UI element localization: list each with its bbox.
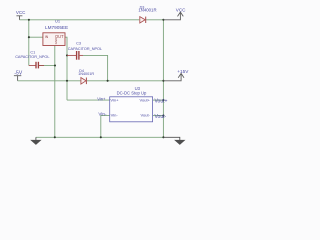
svg-text:1N4001R: 1N4001R [78, 72, 94, 76]
svg-text:C1: C1 [30, 51, 35, 55]
svg-text:Vin-: Vin- [111, 113, 119, 118]
svg-text:LM7905EE: LM7905EE [45, 25, 68, 30]
svg-text:Vin+: Vin+ [97, 97, 106, 102]
svg-text:Vout-: Vout- [141, 113, 151, 118]
svg-text:CAPACITOR_NPOL: CAPACITOR_NPOL [68, 47, 102, 51]
svg-text:-5V: -5V [14, 70, 22, 76]
svg-text:CAPACITOR_NPOL: CAPACITOR_NPOL [15, 55, 49, 59]
svg-text:IN: IN [45, 35, 49, 39]
svg-text:Vout+: Vout+ [140, 97, 151, 102]
svg-text:DC-DC Step Up: DC-DC Step Up [117, 90, 147, 95]
svg-text:Vin+: Vin+ [110, 97, 119, 102]
svg-text:+15V: +15V [177, 69, 189, 74]
svg-text:Vout+: Vout+ [155, 98, 168, 104]
svg-text:1N4001R: 1N4001R [138, 8, 156, 13]
svg-text:Vin-: Vin- [98, 112, 107, 117]
svg-text:U1: U1 [55, 19, 61, 24]
svg-text:Vout-: Vout- [155, 114, 167, 120]
svg-text:GND: GND [54, 38, 58, 44]
svg-text:C3: C3 [76, 41, 81, 45]
svg-text:VCC: VCC [176, 7, 186, 12]
svg-text:VCC: VCC [16, 10, 26, 15]
